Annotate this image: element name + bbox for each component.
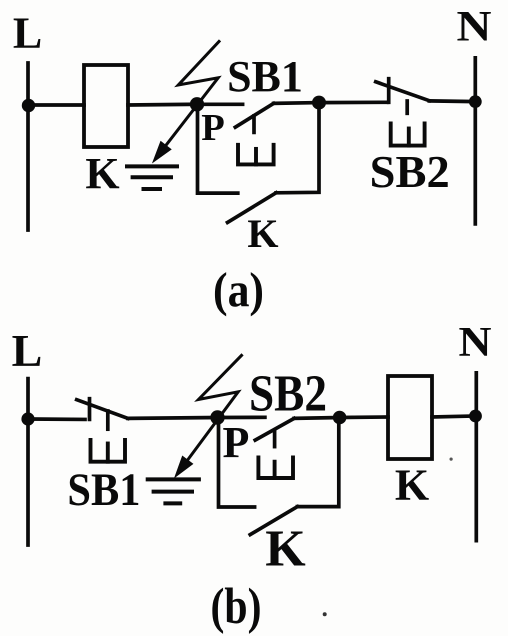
svg-text:P: P — [201, 107, 225, 149]
svg-text:N: N — [459, 320, 492, 366]
wire branch right: blade to node B (b) — [297, 418, 338, 507]
node P junction (b) — [210, 410, 224, 424]
svg-text:(b): (b) — [211, 579, 262, 635]
wire node B to relay coil K (b) — [340, 415, 388, 419]
wire SB2 to node N (a) — [429, 99, 475, 103]
svg-text:L: L — [12, 325, 43, 376]
junction node B (b) — [333, 411, 347, 425]
svg-text:SB1: SB1 — [67, 464, 140, 516]
SB2 actuator button (b) — [258, 457, 293, 478]
wire branch left: node P down and along bottom (a) — [198, 104, 238, 193]
svg-text:K: K — [265, 521, 306, 578]
pushbutton NO contact SB2 (b) — [255, 418, 294, 446]
wire relay coil K to node N (b) — [432, 416, 476, 417]
ground symbol (b) — [148, 479, 199, 503]
wire L bus (a) — [26, 63, 30, 230]
junction node A (a) — [312, 96, 326, 110]
junction node L (a) — [22, 99, 35, 112]
relay contact K blade (a) — [228, 193, 277, 223]
surge lightning arrow to ground (b) — [176, 355, 242, 476]
SB1 actuator button (b) — [91, 440, 126, 462]
ground symbol (a) — [127, 166, 177, 189]
wire N bus (a) — [473, 58, 477, 224]
pushbutton NC contact SB1 (b) — [77, 399, 128, 430]
svg-text:SB2: SB2 — [249, 366, 327, 423]
relay coil K (b) — [388, 376, 432, 459]
wire L bus (b) — [26, 379, 30, 545]
junction node N (b) — [469, 410, 482, 423]
wire node A to SB2 contact (a) — [319, 100, 387, 104]
wire N bus (b) — [474, 373, 478, 541]
wire SB1 to node A (a) — [274, 101, 319, 106]
wire branch right: blade to node A (a) — [276, 103, 319, 193]
junction node N (a) — [469, 95, 482, 108]
SB1 actuator button (a) — [238, 145, 274, 165]
svg-text:K: K — [395, 461, 429, 510]
wire SB1 to node P (b) — [128, 416, 218, 421]
wire node P to SB1 contact (a) — [197, 102, 243, 106]
wire node L to relay coil K (a) — [28, 103, 84, 107]
svg-text:N: N — [457, 4, 492, 51]
surge lightning arrow to ground (a) — [154, 42, 220, 162]
relay coil K (a) — [84, 65, 128, 147]
svg-text:(a): (a) — [213, 262, 264, 317]
wire node L to SB1 contact (b) — [28, 417, 85, 421]
svg-text:L: L — [13, 9, 42, 58]
speck dot 2 — [450, 458, 453, 461]
relay contact K blade (b) — [250, 507, 297, 535]
pushbutton NC contact SB2 (a) — [376, 79, 430, 114]
wire SB2 to node B (b) — [294, 416, 340, 421]
speck dot — [323, 612, 327, 616]
junction node L (b) — [21, 412, 34, 425]
wire relay coil K to node P (a) — [128, 102, 197, 106]
svg-text:SB2: SB2 — [370, 146, 450, 197]
svg-text:K: K — [247, 211, 278, 256]
pushbutton NO contact SB1 (a) — [235, 103, 273, 132]
wire node P to SB2 contact (b) — [218, 415, 265, 419]
svg-text:P: P — [223, 418, 250, 467]
svg-text:SB1: SB1 — [227, 52, 303, 101]
SB2 actuator button (a) — [391, 124, 425, 146]
node P junction (a) — [190, 97, 204, 111]
wire branch left: node P down and along bottom (b) — [219, 418, 255, 508]
svg-text:K: K — [85, 149, 119, 198]
